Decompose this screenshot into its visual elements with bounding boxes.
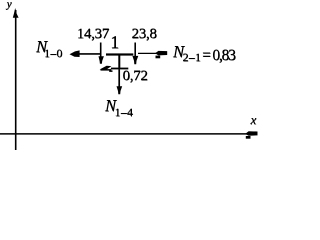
axis label y (7, 0, 12, 10)
y axis (13, 8, 19, 150)
node number 1 (110, 33, 119, 51)
x axis (0, 131, 258, 138)
force arrow N1-4 (down, below node) (117, 69, 123, 94)
force label N1-0 (36, 39, 63, 56)
force label N1-4 (105, 98, 133, 115)
force label N2-1 = 0,83 (173, 44, 235, 61)
force arrow N1-0 (left) (70, 50, 101, 57)
axis label x (251, 113, 257, 126)
force arrow N2-1 (right) (138, 51, 167, 58)
force arrow 14,37 (down, left of node) (99, 43, 104, 64)
value label 23,8 (132, 27, 157, 42)
force arrow 23,8 (down, right of node) (132, 43, 138, 65)
value label 14,37 (77, 27, 109, 42)
small resultant arrow (left, at bottom flange) (100, 66, 113, 72)
node 1 I-beam joint symbol (106, 53, 133, 69)
value label 0,72 (123, 69, 148, 84)
